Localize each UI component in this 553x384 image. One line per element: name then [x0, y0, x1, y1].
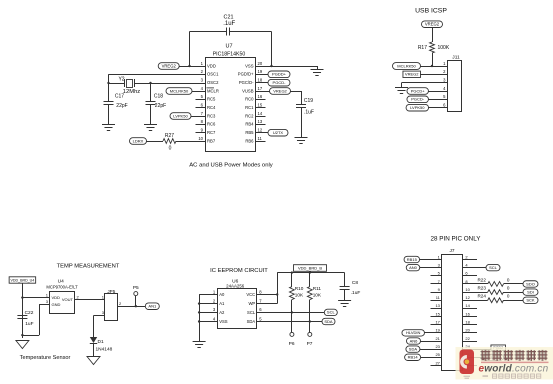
svg-text:AN6: AN6	[410, 338, 419, 343]
svg-text:A0: A0	[219, 292, 225, 297]
node SDA	[322, 318, 335, 324]
node SCK	[523, 297, 538, 303]
svg-text:SDI: SDI	[527, 289, 534, 294]
svg-text:IC EEPROM CIRCUIT: IC EEPROM CIRCUIT	[210, 268, 268, 274]
svg-text:C17: C17	[115, 94, 124, 100]
node RB15	[404, 256, 420, 262]
svg-text:28 PIN PIC ONLY: 28 PIN PIC ONLY	[431, 236, 482, 243]
wire pin8 stub	[196, 124, 206, 126]
svg-text:0: 0	[507, 277, 510, 282]
wire pin13 stub	[255, 124, 266, 126]
svg-text:20: 20	[258, 61, 263, 66]
svg-text:15: 15	[435, 311, 440, 316]
svg-text:RC4: RC4	[207, 105, 216, 110]
svg-text:A2: A2	[219, 310, 225, 315]
ground at U7 VSS	[317, 66, 319, 69]
svg-text:PIC18F14K50: PIC18F14K50	[213, 52, 246, 58]
svg-text:VDD_BRD_U4: VDD_BRD_U4	[11, 278, 35, 282]
svg-text:LVPK50: LVPK50	[410, 105, 425, 110]
svg-text:10K: 10K	[313, 292, 322, 297]
wire JP5 pin3 to D1	[94, 315, 105, 317]
svg-text:RC3: RC3	[207, 113, 216, 118]
ground C19	[295, 137, 308, 139]
node VREG2 at VUSB	[255, 91, 270, 93]
svg-text:1uF: 1uF	[25, 321, 33, 327]
svg-text:Y2: Y2	[118, 77, 124, 83]
svg-text:WP: WP	[248, 301, 255, 306]
svg-text:25: 25	[435, 352, 440, 357]
svg-text:21: 21	[435, 336, 440, 341]
capacitor C19	[291, 91, 302, 93]
svg-text:11: 11	[258, 136, 263, 141]
svg-text:13: 13	[435, 303, 440, 308]
node SCL	[324, 309, 337, 315]
node U2TX	[255, 132, 268, 134]
wire VCC/WP	[257, 294, 278, 296]
svg-text:VDD: VDD	[52, 295, 61, 300]
node LVPK50	[170, 113, 191, 120]
svg-text:C18: C18	[154, 94, 163, 100]
svg-text:SDA: SDA	[247, 319, 256, 324]
svg-text:PGDD+: PGDD+	[272, 72, 287, 77]
ground C22	[16, 341, 29, 349]
svg-text:SCL: SCL	[247, 310, 256, 315]
wire U4 VOUT to JP5	[75, 299, 105, 301]
svg-text:RC7: RC7	[207, 130, 216, 135]
wire pin15 stub	[255, 107, 266, 109]
node SDA	[406, 346, 420, 352]
svg-text:0: 0	[507, 286, 510, 291]
svg-text:17: 17	[258, 86, 263, 91]
svg-text:AN0: AN0	[409, 265, 418, 270]
svg-text:22pF: 22pF	[155, 103, 166, 109]
svg-text:16: 16	[465, 311, 470, 316]
svg-text:0: 0	[507, 294, 510, 299]
node PGCD+	[407, 88, 429, 95]
svg-text:C8: C8	[352, 280, 358, 286]
svg-text:.1uF: .1uF	[351, 290, 361, 296]
wire right stubs	[463, 308, 477, 310]
wire JP5 pin2 to AN1	[118, 306, 146, 308]
svg-text:P5: P5	[133, 285, 139, 291]
svg-text:1N4148: 1N4148	[96, 347, 113, 353]
svg-text:R22: R22	[477, 277, 486, 282]
svg-text:SCL: SCL	[327, 310, 336, 315]
svg-text:RB4: RB4	[245, 122, 254, 127]
svg-text:VSS: VSS	[219, 319, 228, 324]
svg-text:18: 18	[258, 78, 263, 83]
watermark chinese text 电子工程世界	[480, 350, 489, 361]
svg-text:Temperature Sensor: Temperature Sensor	[20, 355, 71, 361]
wire GND branch	[39, 304, 50, 306]
node VDD_BRD_B	[294, 265, 327, 272]
svg-text:OSC1: OSC1	[207, 72, 219, 77]
node AN0	[406, 264, 420, 270]
svg-text:VDD: VDD	[207, 63, 216, 68]
svg-text:RB14: RB14	[408, 355, 419, 360]
svg-text:SDO: SDO	[526, 281, 535, 286]
ground C8	[338, 300, 351, 302]
svg-text:PGD/D+: PGD/D+	[238, 72, 254, 77]
svg-text:17: 17	[435, 320, 440, 325]
wire pin27 stub	[431, 365, 442, 367]
svg-text:MCP9700A-E/LT: MCP9700A-E/LT	[46, 284, 78, 289]
svg-text:SCK: SCK	[526, 298, 535, 303]
svg-text:RC0: RC0	[245, 97, 254, 102]
svg-text:R11: R11	[313, 286, 322, 291]
svg-text:MCLRK50: MCLRK50	[397, 63, 416, 68]
svg-text:RB6: RB6	[245, 138, 254, 143]
svg-text:LDRX: LDRX	[133, 138, 144, 143]
node AN6	[407, 338, 421, 344]
svg-text:VOUT: VOUT	[62, 297, 74, 302]
wire pin11 stub	[255, 141, 266, 143]
svg-text:RC1: RC1	[245, 105, 254, 110]
svg-text:16: 16	[258, 94, 263, 99]
svg-text:TEMP MEASUREMENT: TEMP MEASUREMENT	[57, 264, 120, 270]
svg-text:MCLR: MCLR	[207, 88, 219, 93]
ground U6	[193, 341, 206, 343]
wire VSS to C21 right	[271, 32, 273, 67]
node SDI	[523, 289, 538, 295]
node PGDD+	[255, 74, 268, 76]
resistor R23	[463, 292, 488, 294]
svg-text:20: 20	[465, 328, 470, 333]
node LVPK50	[406, 104, 429, 111]
wire pin28 stub	[463, 365, 477, 367]
svg-text:.1uF: .1uF	[304, 110, 314, 116]
svg-text:10: 10	[198, 136, 203, 141]
wire VDD rail	[277, 272, 344, 274]
svg-text:SDA: SDA	[324, 319, 333, 324]
svg-text:C19: C19	[304, 98, 313, 104]
svg-text:P6: P6	[289, 341, 295, 347]
svg-text:22: 22	[465, 336, 470, 341]
node VDD_BRD_U4	[9, 277, 36, 283]
wire pin3 OSC2	[151, 83, 206, 85]
node SDO	[523, 281, 538, 287]
svg-text:RB15: RB15	[407, 257, 418, 262]
node VREG2 top	[422, 21, 443, 28]
svg-text:10K: 10K	[295, 292, 304, 297]
watermark slogan	[483, 374, 541, 378]
svg-text:VREG2: VREG2	[425, 22, 440, 27]
watermark underline	[481, 361, 549, 363]
svg-text:eworld.com.cn: eworld.com.cn	[479, 363, 549, 374]
svg-text:12Mhz: 12Mhz	[123, 89, 141, 95]
wire VREG2 net to U7 pin1	[189, 32, 191, 67]
svg-text:VDD_BRD_B: VDD_BRD_B	[298, 265, 322, 270]
svg-text:10: 10	[465, 287, 470, 292]
svg-text:0: 0	[169, 145, 172, 151]
svg-text:VSS: VSS	[245, 63, 254, 68]
svg-text:U7: U7	[225, 44, 232, 50]
wire SCL net	[257, 312, 325, 314]
resistor R10 10K	[291, 273, 293, 287]
node P6	[291, 312, 293, 332]
svg-text:D1: D1	[98, 339, 104, 345]
node P7	[309, 322, 311, 333]
ground C18	[144, 124, 157, 126]
node MCLRK50	[393, 63, 421, 70]
ground C17	[102, 124, 115, 126]
wire VDD vertical	[22, 283, 24, 338]
svg-text:RB5: RB5	[245, 130, 254, 135]
ground D1	[87, 357, 100, 365]
svg-text:AC and USB Power Modes only: AC and USB Power Modes only	[189, 162, 273, 168]
resistor R22	[463, 283, 488, 285]
node RB14	[405, 354, 421, 360]
wire pin16 stub	[255, 99, 266, 101]
svg-text:MCLRK50: MCLRK50	[170, 88, 189, 93]
svg-text:PGC/D-: PGC/D-	[239, 80, 254, 85]
wire left stubs	[431, 275, 442, 277]
svg-text:VREG2: VREG2	[405, 72, 419, 77]
svg-text:HLVDIN: HLVDIN	[406, 330, 420, 335]
svg-text:19: 19	[258, 69, 263, 74]
node VREG2	[158, 63, 179, 70]
svg-text:U2TX: U2TX	[273, 130, 284, 135]
node PGD2	[463, 349, 491, 351]
svg-text:VCC: VCC	[246, 292, 255, 297]
resistor R24	[463, 300, 488, 302]
svg-text:RC6: RC6	[207, 122, 216, 127]
svg-text:VREG2: VREG2	[162, 63, 177, 68]
svg-text:12: 12	[465, 295, 470, 300]
svg-text:14: 14	[465, 303, 470, 308]
svg-text:R23: R23	[477, 286, 486, 291]
svg-text:J11: J11	[452, 55, 460, 61]
svg-text:15: 15	[258, 103, 263, 108]
svg-text:RB7: RB7	[207, 138, 216, 143]
svg-text:13: 13	[258, 119, 263, 124]
node PGC2	[463, 357, 484, 359]
watermark logo	[460, 350, 475, 375]
node AN1	[145, 303, 159, 310]
wire pin6 stub	[463, 275, 477, 277]
svg-text:USB ICSP: USB ICSP	[415, 8, 447, 15]
svg-text:U4: U4	[58, 278, 64, 284]
wire SDA net	[257, 321, 323, 323]
node VREG2 global	[403, 71, 421, 77]
wire pin9 stub	[196, 132, 206, 134]
svg-text:PGCD-: PGCD-	[273, 80, 287, 85]
svg-text:R24: R24	[477, 294, 486, 299]
node HLVDIN	[402, 330, 425, 336]
svg-text:RC5: RC5	[207, 97, 216, 102]
svg-text:A1: A1	[219, 301, 225, 306]
svg-text:23: 23	[435, 344, 440, 349]
svg-text:GND: GND	[52, 302, 61, 307]
wire pin5 stub	[196, 99, 206, 101]
wire pin2 OSC1	[109, 74, 206, 76]
logo base mark	[464, 376, 471, 378]
resistor R17 100K	[432, 28, 434, 43]
svg-text:C21: C21	[224, 14, 234, 20]
svg-text:AN1: AN1	[148, 304, 157, 309]
svg-text:R10: R10	[295, 286, 304, 291]
node SCL	[463, 267, 486, 269]
wires U6 address pins to ground	[199, 294, 218, 296]
svg-text:12: 12	[258, 128, 263, 133]
svg-text:VUSB: VUSB	[242, 88, 254, 93]
svg-text:27: 27	[435, 360, 440, 365]
svg-text:22pF: 22pF	[116, 103, 127, 109]
svg-text:LVPK50: LVPK50	[173, 113, 188, 118]
resistor R11 10K	[309, 273, 311, 287]
svg-text:PGCD-: PGCD-	[411, 97, 425, 102]
svg-text:19: 19	[435, 328, 440, 333]
svg-text:SCL: SCL	[489, 265, 498, 270]
svg-text:.1uF: .1uF	[223, 21, 235, 27]
ground J11 pin3	[402, 82, 448, 84]
watermark background	[456, 347, 553, 380]
wire pin14 stub	[255, 116, 266, 118]
svg-text:24AA256: 24AA256	[226, 284, 245, 289]
wire pin2 stub	[463, 259, 477, 261]
node MCLRK50	[166, 88, 192, 95]
svg-text:SDA: SDA	[409, 346, 418, 351]
svg-text:14: 14	[258, 111, 263, 116]
svg-text:RC2: RC2	[245, 113, 254, 118]
svg-text:VREG2: VREG2	[273, 88, 287, 93]
node PGCD-	[255, 82, 268, 84]
svg-text:18: 18	[465, 320, 470, 325]
svg-text:P7: P7	[307, 341, 313, 347]
svg-text:100K: 100K	[438, 45, 450, 51]
svg-text:PGCD+: PGCD+	[411, 88, 426, 93]
svg-text:OSC2: OSC2	[207, 80, 219, 85]
node PGCD-	[407, 96, 429, 103]
svg-text:R17: R17	[418, 45, 427, 51]
wire pin6 stub	[196, 107, 206, 109]
svg-text:J7: J7	[449, 248, 454, 254]
node LDRX	[130, 138, 147, 145]
